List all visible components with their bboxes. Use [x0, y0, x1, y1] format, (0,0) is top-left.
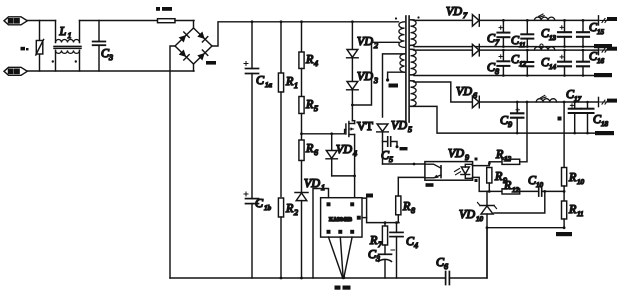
svg-text:KA3842B: KA3842B	[329, 217, 352, 223]
output terminal row2	[599, 46, 609, 55]
capacitor C18	[582, 102, 594, 133]
node output3 R10 tap	[563, 101, 566, 104]
bridge diode bottom-left	[179, 49, 190, 60]
resistor R12a (LED series)	[489, 102, 527, 164]
wire bridge DC plus: right corner up to main DC rail	[212, 22, 399, 46]
node source junction	[353, 175, 356, 178]
node R12 feed tap	[526, 101, 529, 104]
svg-text:R: R	[495, 147, 504, 161]
svg-text:1: 1	[294, 81, 298, 90]
capacitor C5 (vcc filter)	[383, 137, 399, 149]
resistor R9 (LED bias)	[487, 168, 492, 192]
capacitor C1b (bulk electrolytic)	[244, 192, 259, 278]
fuse tiny label	[156, 7, 160, 11]
svg-text:VD: VD	[459, 207, 475, 221]
capacitor C9	[511, 102, 523, 133]
output terminal row3	[599, 97, 609, 106]
svg-text:4: 4	[353, 149, 357, 158]
node C16 top	[582, 49, 585, 52]
svg-text:14: 14	[549, 63, 557, 71]
svg-text:C: C	[255, 196, 264, 210]
junction dots on output return rails	[502, 45, 589, 134]
common-mode choke L1 winding bottom	[56, 50, 80, 71]
node VD1 bottom on ground rail	[300, 277, 303, 280]
capacitor C12	[521, 50, 533, 75]
resistor R4	[299, 22, 304, 97]
transformer primary winding	[399, 22, 405, 48]
node C15 top	[582, 19, 585, 22]
node C9 top	[516, 101, 519, 104]
diode VD8 row2 rectifier	[472, 44, 598, 56]
wire IC vref pin loop to ground	[313, 189, 329, 279]
opto pin marks right	[475, 158, 478, 161]
capacitor C11	[521, 20, 533, 46]
capacitor C7	[497, 20, 509, 46]
node R2 bottom on ground rail	[280, 277, 283, 280]
node divider mid	[563, 190, 566, 193]
svg-text:10: 10	[536, 181, 544, 189]
wire VD4 to source node	[332, 175, 355, 177]
node C12 top	[526, 49, 529, 52]
node C11 top	[526, 19, 529, 22]
resistor R8	[396, 177, 426, 222]
diode VD3 (clamp)	[347, 58, 359, 121]
wire source to current-sense network	[355, 198, 399, 223]
IC ground pins converge	[329, 237, 353, 277]
zener diode VD10	[478, 191, 497, 227]
svg-text:1b: 1b	[264, 204, 272, 212]
choke polarity dots	[52, 60, 54, 62]
bridge rectifier diamond	[175, 28, 212, 64]
return row3 COM tiny label	[595, 131, 614, 135]
node DC+ junction snubber	[351, 20, 354, 23]
wire secondary2 top rail	[411, 48, 473, 51]
wire top AC rail from plug to choke	[27, 20, 56, 22]
node C14 top	[563, 49, 566, 52]
node drain junction to primary	[351, 104, 354, 107]
svg-text:11: 11	[577, 210, 583, 218]
transformer T1 core	[406, 16, 409, 122]
diode VD1	[295, 193, 308, 279]
svg-text:R: R	[305, 52, 314, 66]
svg-text:VD: VD	[391, 118, 407, 132]
capacitor C3 (X-cap across line)	[93, 21, 106, 72]
opto tiny label M1	[426, 183, 434, 187]
return row2 COM tiny label	[594, 73, 612, 77]
svg-text:3: 3	[108, 53, 113, 62]
svg-text:10: 10	[577, 178, 585, 186]
node junction C4/R8	[395, 221, 398, 224]
svg-text:6: 6	[473, 91, 477, 100]
svg-text:5: 5	[389, 155, 393, 164]
svg-text:12: 12	[512, 186, 520, 194]
diode VD7	[472, 15, 598, 27]
node C7 top	[502, 19, 505, 22]
node VD4 tap on gate wire	[330, 132, 333, 135]
wire comp loop down to zener cathode	[494, 191, 545, 213]
svg-text:R: R	[568, 170, 577, 184]
node DC+ junction R4	[300, 20, 303, 23]
svg-text:4: 4	[414, 241, 418, 250]
aux tiny annotation	[389, 84, 399, 88]
svg-text:2: 2	[294, 208, 298, 217]
input terminal top (AC plug)	[4, 17, 27, 25]
wire bridge top corner to fuse rail	[193, 21, 195, 29]
node R7 tap	[384, 221, 387, 224]
svg-text:15: 15	[597, 28, 605, 36]
transformer aux winding	[400, 54, 405, 72]
wire gate drive from divider	[302, 130, 346, 134]
svg-text:4: 4	[314, 59, 318, 68]
node C8 top	[502, 49, 505, 52]
svg-text:1: 1	[321, 183, 325, 192]
svg-text:9: 9	[465, 153, 469, 162]
wire drain to transformer primary bottom	[352, 42, 398, 105]
resistor R11 (divider bottom)	[562, 201, 567, 228]
svg-text:6: 6	[314, 148, 318, 157]
capacitor C8	[497, 50, 509, 75]
svg-text:1: 1	[68, 31, 72, 40]
wire bridge bottom corner to AC bottom rail	[193, 64, 195, 71]
svg-text:18: 18	[601, 120, 609, 128]
input terminal bottom (AC plug)	[4, 67, 27, 75]
svg-text:16: 16	[597, 57, 605, 65]
wire zener to Y-cap link	[486, 228, 488, 278]
resistor R7 (current sense)	[382, 223, 387, 255]
inductor L2 output filter row1	[534, 14, 554, 20]
diode VD2 (clamp)	[347, 22, 359, 58]
svg-text:13: 13	[549, 34, 557, 42]
resistor R13 (comp series)	[489, 189, 538, 194]
svg-text:C: C	[256, 73, 265, 87]
diode VD5 (aux rectifier)	[377, 124, 389, 164]
capacitor C3b (timing cap below R7)	[379, 250, 395, 278]
output row1 tiny voltage label	[607, 17, 617, 21]
svg-text:R: R	[369, 233, 378, 247]
fuse FU	[158, 19, 195, 23]
inductor L3 output filter row2	[534, 44, 554, 50]
svg-text:R: R	[305, 97, 314, 111]
capacitor C4	[390, 223, 403, 278]
wire opto anode to node A	[473, 162, 489, 166]
svg-text:1a: 1a	[265, 81, 273, 89]
svg-text:R: R	[568, 202, 577, 216]
IC pin label tiny	[366, 194, 373, 198]
svg-text:8: 8	[411, 206, 415, 215]
square junction mark on output3 drop	[558, 117, 562, 121]
output terminal row1	[599, 16, 609, 25]
node N1 junction	[488, 190, 491, 193]
bridge diode top-right	[197, 31, 208, 42]
svg-text:R: R	[402, 199, 411, 213]
resistor R10 (divider top)	[562, 102, 567, 201]
capacitor C17	[569, 102, 581, 133]
svg-text:5: 5	[408, 125, 412, 134]
diode VD4 (gate protection)	[326, 134, 337, 176]
optocoupler U2 box	[425, 162, 473, 181]
varistor RV	[36, 21, 44, 72]
resistor R2	[278, 198, 283, 278]
capacitor C15	[577, 20, 589, 46]
svg-text:12: 12	[504, 155, 512, 163]
wire vcc to optocoupler	[383, 163, 425, 165]
svg-text:VD: VD	[446, 4, 462, 18]
secondary ground tiny label	[556, 232, 572, 236]
svg-text:3: 3	[373, 76, 378, 85]
wire secondary1 return rail	[411, 45, 595, 46]
svg-text:R: R	[494, 169, 503, 183]
svg-text:11: 11	[519, 41, 525, 49]
transformer secondary 1 dot	[417, 16, 419, 18]
optocoupler LED VD9	[455, 164, 473, 178]
resistor R6	[299, 140, 304, 193]
inductor L4 output filter row3	[536, 95, 556, 102]
capacitor C10 (comp)	[539, 187, 564, 196]
svg-text:R: R	[285, 74, 294, 88]
node C13 top	[563, 19, 566, 22]
bridge diode top-left	[179, 32, 190, 43]
wire secondary3 return staircase to gnd rail	[411, 106, 613, 133]
capacitor C16	[577, 50, 589, 75]
wire secondary2 return rail	[411, 74, 595, 77]
svg-text:12: 12	[519, 60, 527, 68]
svg-text:L: L	[59, 24, 67, 38]
node after C10	[543, 190, 546, 193]
wire aux bottom stub with dot terminal	[388, 72, 405, 78]
output row2 tiny voltage label	[607, 47, 617, 51]
C5 tiny annotation	[400, 147, 408, 150]
main bottom ground rail	[170, 277, 446, 279]
label RV	[21, 47, 26, 51]
svg-text:R: R	[503, 178, 512, 192]
transformer secondary winding 3	[411, 81, 417, 107]
svg-text:8: 8	[495, 67, 499, 76]
svg-text:VT: VT	[357, 119, 374, 133]
svg-text:10: 10	[476, 215, 484, 223]
node DC+ junction R1	[280, 20, 283, 23]
common-mode choke L1 winding top	[54, 21, 81, 49]
capacitor C6 (Y-cap in ground link)	[446, 228, 487, 285]
node DC+ junction C1a	[251, 20, 254, 23]
capacitor C14	[558, 50, 571, 75]
node gate-divider junction R5/R6	[300, 132, 303, 135]
resistor R1	[278, 22, 283, 197]
wire IC pin6 stub	[362, 217, 367, 219]
capacitor C13	[558, 20, 571, 46]
node R11 bottom	[563, 226, 566, 229]
wire aux top to VD5 line	[383, 54, 405, 117]
wire top rail choke to fuse	[80, 20, 158, 22]
svg-text:3: 3	[375, 254, 380, 263]
output row3 tiny voltage label	[607, 99, 617, 103]
IC U1 PWM controller	[321, 198, 362, 237]
node A junction	[488, 162, 491, 165]
wire secondary ground bus	[486, 190, 488, 192]
node IC ground on rail	[342, 276, 346, 280]
transformer primary dot	[395, 17, 397, 19]
bridge diode bottom-right	[197, 50, 208, 61]
transformer secondary winding 2	[411, 49, 417, 75]
svg-text:VD: VD	[336, 142, 352, 156]
optocoupler phototransistor	[425, 164, 441, 178]
svg-text:5: 5	[314, 104, 318, 113]
diode VD6	[472, 96, 598, 108]
wire opto cathode to node N1	[473, 177, 489, 191]
transistor VT (power MOSFET)	[346, 121, 355, 198]
return row1 COM tiny label	[594, 44, 612, 48]
svg-text:R: R	[305, 141, 314, 155]
bridge tiny annotation	[206, 61, 216, 65]
svg-text:VD: VD	[448, 146, 464, 160]
svg-text:6: 6	[444, 262, 448, 271]
IC ground tiny label	[335, 286, 341, 290]
wire secondary1 top rail	[411, 19, 473, 22]
node zener anode junction	[486, 226, 489, 229]
wire bridge DC minus: left corner down to ground rail	[170, 46, 175, 278]
wire bottom AC rail from plug to bridge	[27, 70, 194, 72]
capacitor C1a (bulk electrolytic)	[244, 22, 259, 199]
wire secondary3 top to VD6	[411, 81, 473, 102]
svg-text:VD: VD	[456, 84, 472, 98]
transformer secondary winding 1	[411, 20, 417, 46]
resistor R5	[299, 97, 304, 141]
svg-text:9: 9	[508, 120, 512, 129]
svg-text:R: R	[285, 201, 294, 215]
